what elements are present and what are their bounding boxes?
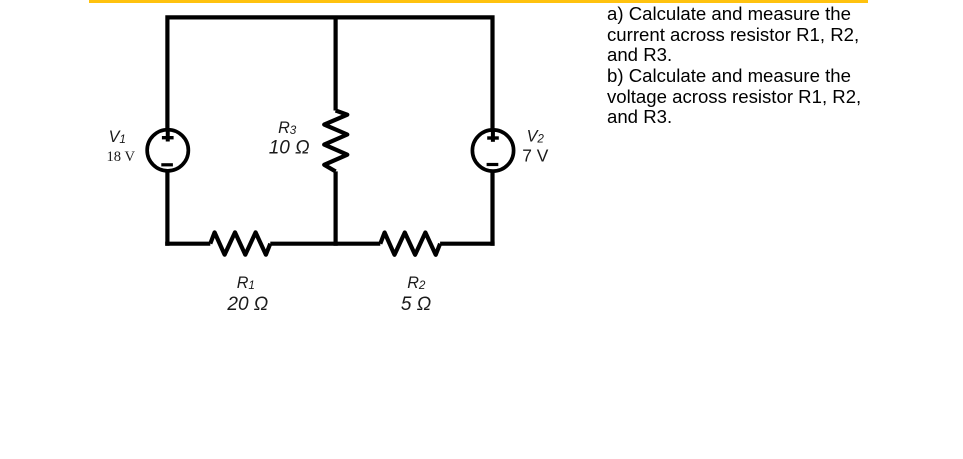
svg-text:5 Ω: 5 Ω <box>401 294 431 315</box>
V2 minus terminal <box>487 163 499 166</box>
wire bottom left (V1- to R1) <box>165 242 210 246</box>
wire bottom middle (R1 to R2 through bottom node) <box>270 242 380 246</box>
svg-text:R1: R1 <box>237 274 255 292</box>
voltage source V2 <box>472 130 513 171</box>
resistor R3 <box>324 111 347 172</box>
wire bottom right (R2 to V2-) <box>440 242 495 246</box>
wire outer loop: top node between V1+, R3 top, V2+ <box>167 17 492 245</box>
wire middle vertical lower (R3 to bottom node) <box>334 171 338 245</box>
svg-text:20 Ω: 20 Ω <box>226 294 268 315</box>
V1 plus terminal <box>166 128 170 141</box>
V1 minus terminal <box>161 163 173 166</box>
V2 plus terminal <box>491 128 495 141</box>
svg-text:V1: V1 <box>109 128 126 146</box>
svg-text:10 Ω: 10 Ω <box>269 138 310 159</box>
svg-text:R2: R2 <box>407 274 426 292</box>
voltage source V1 <box>147 130 188 171</box>
svg-text:V2: V2 <box>527 128 545 146</box>
resistor R1 <box>210 232 270 254</box>
svg-text:R3: R3 <box>278 119 297 137</box>
svg-text:18 V: 18 V <box>107 149 136 165</box>
svg-text:7 V: 7 V <box>522 146 549 166</box>
task text <box>607 4 917 128</box>
resistor R2 <box>380 233 440 255</box>
yellow header rule <box>89 0 869 3</box>
wire middle vertical upper (top node to R3) <box>334 17 338 110</box>
